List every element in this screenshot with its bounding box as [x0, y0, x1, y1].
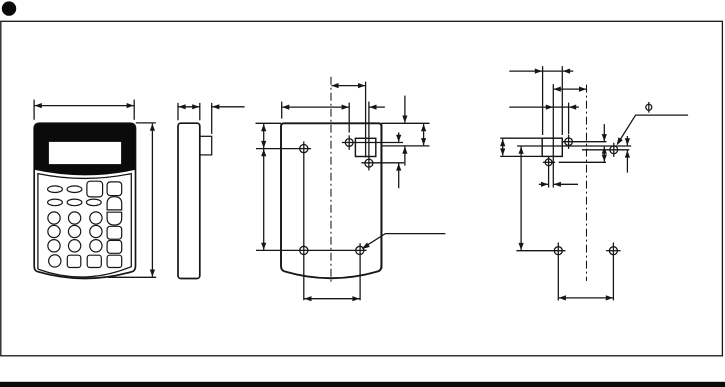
template rowC dim left part: [509, 106, 553, 108]
bottom black bar: [0, 382, 725, 387]
template long center horizontal line: [517, 145, 631, 147]
rear top edge right extension: [381, 122, 429, 124]
key circle r5c3: [90, 240, 102, 252]
template hole A: [565, 138, 573, 146]
key oval r2c1: [48, 199, 63, 206]
template hole D/left horizontal ext: [516, 250, 565, 252]
side depth extension tick left: [177, 103, 179, 120]
template hole B cross horizontal: [543, 161, 555, 163]
template hole B: [545, 159, 552, 166]
template hole E cross horizontal: [606, 250, 621, 252]
template rowA dim left part: [509, 70, 542, 72]
rear hole below connector: [365, 159, 373, 167]
template left small dim square top-center: [502, 139, 504, 156]
template ext square-bottom horizontal left: [500, 155, 542, 157]
registration dot top-left: [2, 1, 16, 15]
rear bottom dimension: [304, 298, 359, 300]
template centerline: [586, 85, 588, 281]
template hole A cross horizontal ext: [561, 141, 606, 143]
template hole A cross vertical: [568, 135, 570, 149]
rear hole bottom-right: [356, 246, 364, 254]
template hole C cross horizontal: [582, 149, 629, 151]
front width extension tick right: [133, 100, 135, 120]
template below-square dim right part: [554, 183, 578, 185]
display window: [49, 142, 121, 164]
template rowA dim right part: [563, 70, 573, 72]
key half-capsule top c4: [107, 197, 122, 210]
phi symbol stroke: [648, 102, 650, 113]
rear ext rect-center horizontal right: [381, 145, 429, 147]
template rowC dim connector: [553, 106, 568, 108]
template bottom dim: [559, 297, 613, 299]
rear leader arrowhead: [362, 243, 370, 250]
key square r6c4: [107, 255, 122, 267]
template ext square-right vertical: [561, 66, 563, 135]
rear bottom-right hole ext down: [359, 243, 361, 300]
rear ext through top-left hole: [256, 148, 311, 150]
template ext square-left vertical: [542, 66, 544, 135]
template hole C: [610, 146, 618, 154]
template below-square dim left part: [539, 183, 548, 185]
rear connector rectangle: [355, 138, 375, 156]
rear right dimension top-to-center: [423, 124, 425, 145]
rear vertical line through left holes: [303, 141, 305, 300]
side view body: [178, 123, 200, 278]
rear view body outline: [281, 123, 381, 278]
rear right outside arrow up at hole2 line: [398, 163, 400, 188]
front width dimension: [35, 105, 134, 107]
template right dim center-to-holeB: [603, 147, 605, 162]
phi symbol circle: [646, 104, 652, 110]
rear hole bottom-left: [300, 246, 308, 254]
side depth extension tick right: [211, 103, 213, 134]
template rowB dim: [554, 88, 587, 90]
keypad panel outline: [38, 174, 131, 277]
key circle r4c1: [48, 225, 60, 237]
rear top dimension row1: [331, 85, 365, 87]
side body depth dimension: [178, 106, 199, 108]
side view wall-mount lug: [200, 136, 212, 155]
template hole E bottom-right: [609, 247, 617, 255]
template phi symbol: [646, 102, 652, 113]
rear ext hole1 vertical: [348, 103, 350, 133]
template left tall dim center-to-bottom: [520, 147, 522, 251]
template phi leader line: [618, 115, 689, 144]
template hole D bottom-left: [554, 247, 562, 255]
rear right outside arrow up at center line: [404, 147, 406, 166]
template hole D vertical ext: [557, 243, 559, 301]
key circle r4c3: [90, 225, 102, 237]
template hole B ext horizontal right: [559, 161, 606, 163]
front width extension tick left: [33, 100, 35, 120]
template right outside arrow down at center line: [626, 136, 628, 145]
key circle r3c3: [90, 212, 102, 224]
key square r5c4: [107, 240, 122, 253]
front view black header: [34, 123, 135, 175]
key oval r1c1: [48, 186, 63, 193]
rear centerline: [330, 77, 332, 283]
rear hole1 cross horizontal ext: [342, 142, 403, 144]
key circle r5c2: [68, 240, 80, 252]
front height extension bottom: [108, 276, 156, 278]
front height dimension: [151, 124, 153, 277]
key oval r1c2: [67, 186, 82, 193]
key oval r2c2: [67, 199, 82, 206]
template ext square-center vertical: [552, 84, 554, 188]
rear hole top-left: [300, 145, 308, 153]
rear top edge left extension: [256, 122, 282, 124]
template ext square-top horizontal left: [500, 137, 542, 139]
key oval r2c3: [86, 199, 101, 206]
rear ext rect-center vertical: [365, 82, 367, 158]
key half-capsule bottom c4: [107, 212, 122, 225]
rear ext hole2 vertical: [368, 102, 370, 171]
key square r1c4: [107, 182, 122, 196]
key circle r6c1: [49, 255, 61, 267]
key square r1c3: [87, 181, 103, 197]
template rowA dim connector: [542, 70, 562, 72]
key circle r5c1: [48, 240, 60, 252]
template hole E vertical ext: [612, 243, 614, 301]
key square r4c4: [107, 226, 122, 239]
template rowC dim right part: [569, 106, 579, 108]
rear hole1 cross vertical: [348, 135, 350, 150]
template right outside arrow up at holeC line: [626, 150, 628, 172]
rear left dimension upper: [263, 124, 265, 148]
front height extension top: [136, 122, 156, 124]
key circle r4c2: [68, 225, 80, 237]
key circle r3c2: [68, 212, 80, 224]
key square r6c3: [87, 255, 101, 267]
rear row2 outside arrow right: [369, 106, 385, 108]
front view body outline: [34, 123, 135, 278]
rear leader line to bottom-right hole: [363, 234, 446, 249]
rear ext through bottom holes: [256, 249, 367, 251]
rear right outside arrow down at top edge: [404, 96, 406, 123]
rear ext body-left vertical: [281, 102, 283, 119]
key circle r3c1: [48, 212, 60, 224]
side depth extension tick middle: [199, 103, 201, 120]
template hole C cross vertical: [613, 143, 615, 157]
template ext holeA vertical: [568, 103, 570, 134]
rear top dimension row2: [282, 106, 349, 108]
rear right outside arrow down at hole1 line: [398, 132, 400, 142]
rear hole2 cross horizontal ext: [361, 162, 404, 164]
key square r6c2: [67, 255, 81, 267]
rear left dimension lower: [263, 149, 265, 250]
template right outside arrow down at holeA line: [603, 124, 605, 141]
rear hole near connector: [345, 139, 353, 147]
template connector cutout square: [542, 138, 562, 156]
template phi leader arrowhead: [617, 137, 623, 145]
template hole B cross vertical ext: [548, 157, 550, 188]
rear body right edge emphasis: [381, 125, 383, 269]
side total depth arrow: [212, 106, 245, 108]
